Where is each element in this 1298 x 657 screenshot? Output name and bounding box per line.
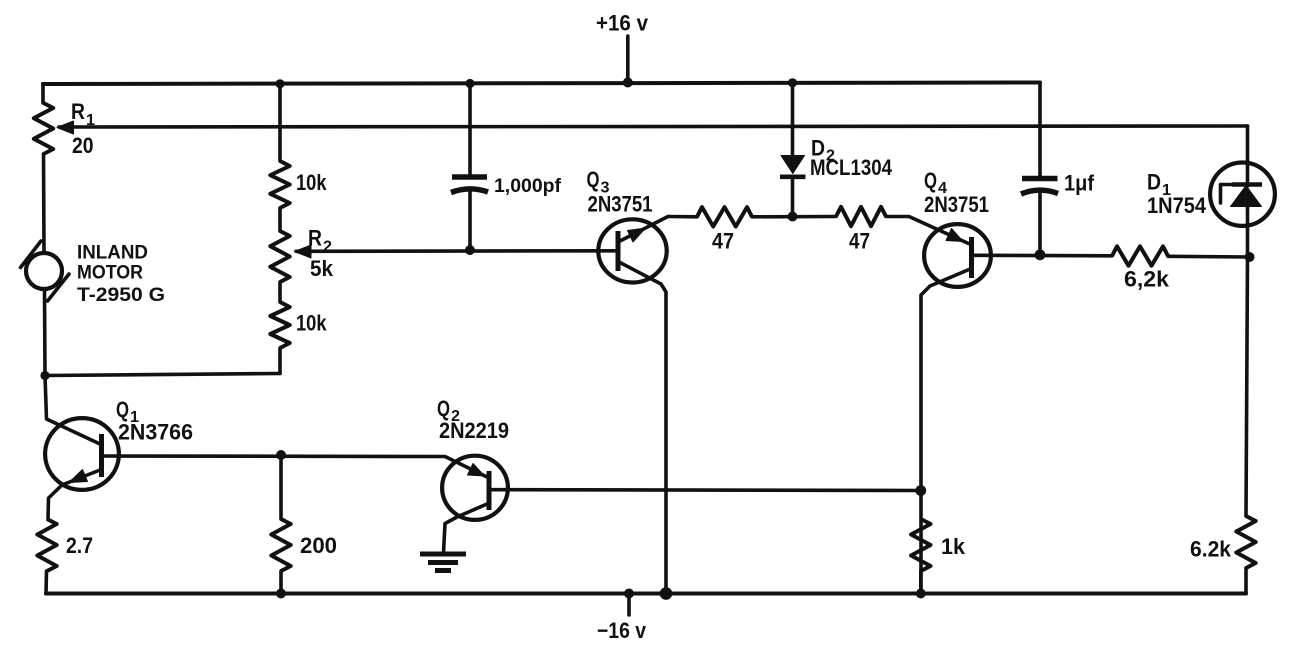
wire -16v supply stub (627, 594, 631, 616)
svg-text:1,000pf: 1,000pf (494, 176, 562, 197)
motor brush stroke lower-right (48, 274, 70, 301)
wire R1 to motor (42, 154, 46, 252)
svg-text:2N2219: 2N2219 (439, 418, 509, 443)
resistor 6.2k lower zigzag (1236, 516, 1255, 568)
transistor Q3 upper lead to 47 rail (619, 217, 668, 242)
svg-text:1: 1 (86, 112, 95, 129)
wire rail to C 1,000pf (468, 84, 472, 175)
transistor Q4 arrow (946, 229, 963, 242)
transistor Q2 base bar (487, 471, 492, 510)
svg-text:2.7: 2.7 (66, 533, 93, 558)
zener D1 cathode tail (1221, 185, 1234, 204)
diode D2 MCL1304 triangle (781, 156, 805, 174)
wire node to 200 (279, 455, 283, 519)
svg-text:47: 47 (849, 229, 870, 254)
svg-text:R: R (71, 99, 85, 124)
transistor Q4 lower lead (921, 270, 969, 594)
node divider top rail junction (275, 79, 284, 88)
wire divider bottom return (45, 374, 280, 376)
resistor 47 left zigzag (697, 207, 752, 226)
wire R2 wiper to Q3 base (296, 249, 617, 253)
svg-text:6,2k: 6,2k (1124, 267, 1170, 292)
resistor 10k lower zigzag (270, 302, 289, 348)
svg-text:10k: 10k (296, 311, 327, 336)
wire rail to D2 (791, 83, 795, 156)
transistor Q4 base bar (969, 237, 974, 278)
wire rail to 10k top (278, 84, 282, 161)
resistor 6.2k upper zigzag (1112, 246, 1168, 265)
wire top rail corner to C 1uf (1038, 83, 1042, 177)
wire C 1,000pf to base wire (468, 192, 472, 250)
svg-text:MOTOR: MOTOR (77, 263, 143, 284)
wire Q3 to 47 left (668, 215, 697, 219)
capacitor 1,000pf bottom plate (451, 189, 488, 193)
wire D1 to 6.2k node (1246, 207, 1248, 517)
motor M INLAND T-2950G circle (26, 253, 62, 289)
wire 200 to bottom rail (279, 571, 283, 594)
node D1 / 6.2k junction (1245, 252, 1255, 262)
wire left rail corner to R1 (41, 84, 45, 103)
wire rail corner down to D1 (1246, 126, 1250, 161)
capacitor 1,000pf top plate (452, 174, 487, 180)
resistor R2 potentiometer 5k zigzag (270, 231, 289, 282)
wire 1k to bottom rail (919, 571, 923, 594)
resistor 2.7 zigzag (37, 519, 56, 571)
resistor 1k zigzag (911, 519, 930, 571)
transistor Q3 2N3751 circle (598, 219, 666, 282)
node motor / divider-return junction (40, 371, 49, 380)
node D2 top rail junction (788, 78, 797, 87)
node D2 / 47-47 junction (788, 212, 798, 222)
svg-text:10k: 10k (296, 170, 327, 195)
wire R1 wiper to D1 rail (59, 126, 1248, 127)
transistor Q1 emitter arrow (69, 470, 88, 483)
node R1 wiper arrow (57, 121, 74, 134)
svg-text:20: 20 (72, 133, 94, 158)
wire 47 right to Q4 (886, 217, 969, 244)
capacitor 1uf top plate (1022, 176, 1058, 182)
svg-text:2N3766: 2N3766 (118, 420, 193, 445)
transistor Q2 2N2219 circle (442, 456, 508, 520)
svg-text:INLAND: INLAND (77, 243, 148, 264)
node 1k bottom rail junction (916, 589, 926, 599)
svg-text:2N3751: 2N3751 (924, 192, 989, 217)
svg-text:MCL1304: MCL1304 (810, 155, 893, 180)
svg-text:+16 v: +16 v (596, 11, 649, 36)
svg-text:Q: Q (924, 168, 937, 193)
wire 6.2k lower to bottom rail (1244, 568, 1248, 594)
diode D2 cathode bar (780, 175, 806, 180)
wire top +16v rail (43, 83, 1040, 85)
wire C 1uf to Q4 output node (1038, 194, 1042, 255)
wire 10k to R2 (278, 208, 282, 231)
transistor Q4 output lead (972, 254, 1113, 258)
node Q4 emitter / Q2 collector / 1k junction (915, 485, 926, 496)
ground bar 1 (420, 552, 466, 557)
wire 2.7 to bottom rail corner (44, 571, 48, 594)
resistor 47 right zigzag (836, 207, 886, 226)
node Q1 base / 200 junction (276, 450, 286, 460)
wire through D1 top (1246, 161, 1250, 186)
node 1uf / Q4 junction (1035, 249, 1046, 260)
svg-text:1k: 1k (941, 534, 966, 559)
transistor Q2 arrow (468, 464, 485, 477)
wire R2 to 10k lower (278, 282, 282, 302)
transistor Q2 emitter to ground (444, 504, 488, 553)
zener diode D1 1N754 circle (1210, 163, 1275, 226)
svg-text:Q: Q (587, 167, 600, 192)
ground bar 2 (428, 560, 458, 565)
node 200 bottom rail junction (276, 589, 286, 599)
motor brush stroke upper-left (21, 241, 42, 268)
transistor Q3 base bar (616, 231, 621, 271)
wire bottom -16v rail (46, 592, 1246, 596)
node cap1000 bottom junction (465, 245, 475, 255)
transistor Q3 arrow (628, 228, 646, 242)
svg-text:1μf: 1μf (1064, 171, 1095, 196)
svg-text:200: 200 (300, 533, 337, 558)
svg-text:47: 47 (712, 229, 734, 254)
resistor R1 potentiometer 20 zigzag (34, 103, 53, 154)
node R2 wiper arrow (295, 245, 312, 258)
svg-text:5k: 5k (310, 256, 334, 281)
capacitor 1uf bottom plate (1021, 190, 1058, 194)
wire +16v supply lead (626, 36, 630, 83)
wire D2 to 47-47 node (791, 178, 795, 217)
transistor Q1 2N3766 circle (45, 418, 119, 490)
svg-text:T-2950 G: T-2950 G (77, 285, 165, 306)
svg-text:Q: Q (116, 397, 129, 422)
transistor Q4 2N3751 circle (924, 224, 991, 287)
wire 47 left to D2 node (752, 215, 836, 219)
node cap1000 top rail junction (465, 79, 474, 88)
ground bar 3 (435, 568, 451, 573)
svg-text:2N3751: 2N3751 (588, 192, 653, 217)
svg-text:−16 v: −16 v (597, 618, 647, 643)
node Q3 emitter to -16 rail junction (660, 587, 673, 600)
transistor Q2 collector wire to 1k node (489, 488, 921, 492)
svg-text:R: R (308, 226, 322, 251)
wire junction down to Q1 collector (45, 376, 100, 445)
node +16v rail junction (623, 78, 633, 88)
zener D1 cathode bar (1232, 182, 1262, 187)
resistor 200 zigzag (271, 519, 290, 571)
wire motor to lower junction (43, 291, 47, 376)
resistor 10k upper zigzag (270, 161, 289, 208)
transistor Q3 lower lead (619, 262, 666, 594)
transistor Q1 base bar (99, 434, 104, 477)
transistor Q1 base wire to Q2 (102, 456, 488, 477)
svg-text:1N754: 1N754 (1147, 193, 1207, 218)
zener D1 triangle (1231, 186, 1262, 207)
svg-text:6.2k: 6.2k (1190, 537, 1232, 562)
wire 10k lower to return corner (278, 348, 282, 374)
svg-text:2: 2 (323, 239, 332, 256)
transistor Q1 emitter lead (48, 470, 100, 519)
wire 6.2k to D1 node (1168, 254, 1250, 258)
node -16v rail junction (624, 589, 634, 599)
svg-text:D: D (1147, 170, 1161, 195)
